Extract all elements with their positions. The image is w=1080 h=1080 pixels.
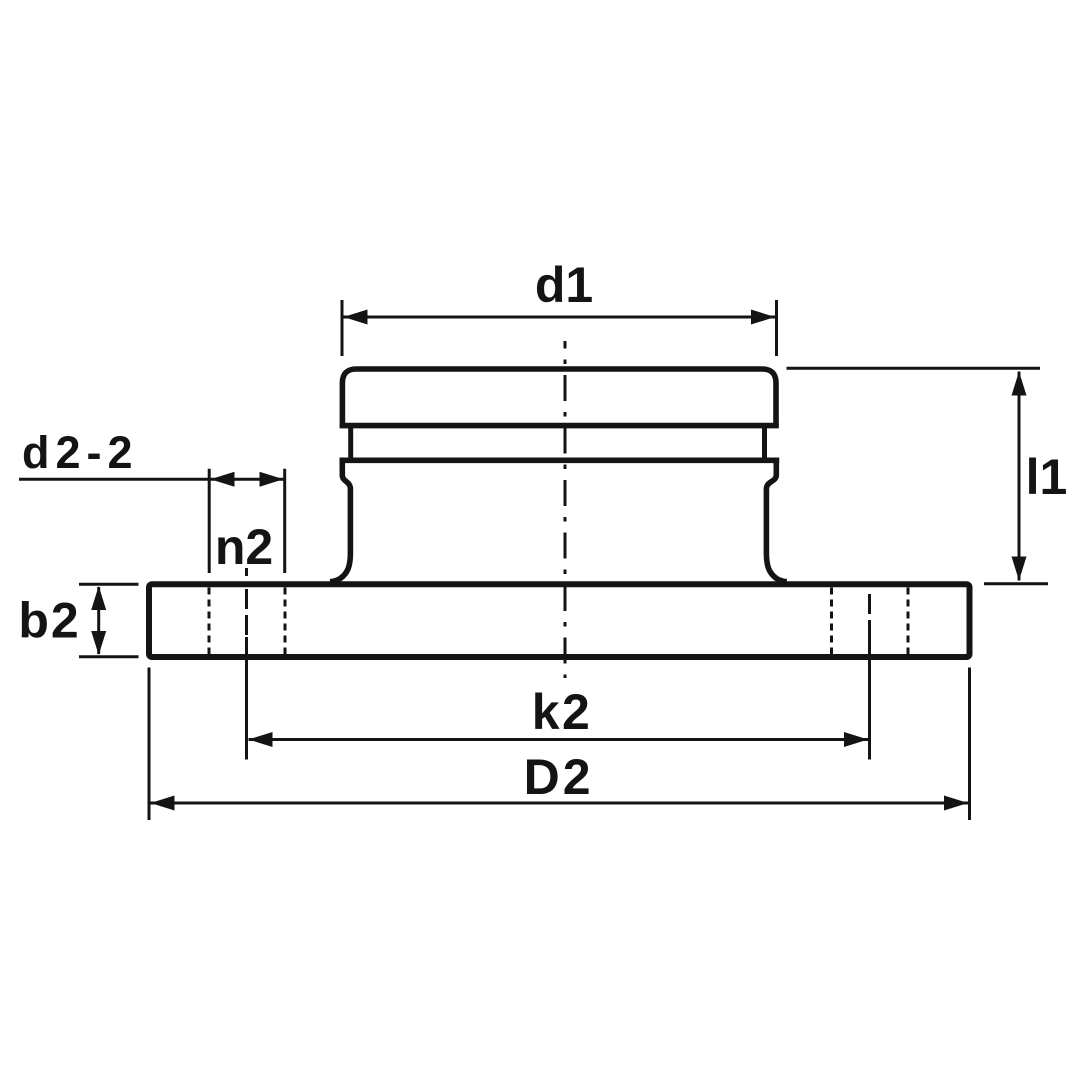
dimension l1 bottom tick: [984, 582, 1048, 585]
hub neck left profile: [330, 458, 350, 582]
hub collar top edge: [340, 457, 780, 463]
left bolt hole edge (dashed, x=209): [208, 588, 211, 655]
dimension k2 right arrowhead: [844, 732, 868, 747]
dimension b2 line: [97, 587, 100, 654]
dimension l1 line: [1018, 372, 1021, 581]
dimension d1 right arrowhead: [751, 310, 775, 325]
dimension D2 line: [151, 802, 969, 805]
left bolt centerline / k2 extension line: [245, 637, 248, 760]
dimension b2 bottom arrowhead: [91, 631, 106, 655]
svg-text:D2: D2: [524, 749, 594, 805]
dimension l1 top arrowhead: [1012, 372, 1027, 396]
svg-text:n2: n2: [215, 519, 273, 575]
dimension l1 top tick: [787, 367, 1041, 370]
right bolt hole edge (dashed, x=831.5): [830, 588, 833, 655]
hub neck right profile: [766, 458, 786, 582]
hub band left edge: [348, 426, 353, 461]
vertical centerline (dash-dot): [564, 341, 567, 678]
hub band right edge: [762, 426, 767, 461]
dimension d2-2 right extension line: [283, 469, 286, 573]
dimension d1 left arrowhead: [344, 310, 368, 325]
dimension d2-2 left arrowhead: [211, 472, 235, 487]
svg-text:d1: d1: [535, 257, 593, 313]
dimension d2-2 line: [19, 478, 285, 481]
flange plate outline: [149, 584, 970, 657]
dimension D2 left extension line: [148, 668, 151, 821]
dimension b2 bottom tick: [79, 655, 139, 658]
dimension b2 top tick: [79, 583, 139, 586]
svg-text:d2-2: d2-2: [22, 427, 139, 478]
dimension D2 right arrowhead: [944, 796, 968, 811]
svg-text:k2: k2: [532, 684, 593, 740]
dimension d1 left extension line: [341, 300, 344, 356]
dimension b2 top arrowhead: [91, 586, 106, 610]
svg-text:b2: b2: [18, 593, 80, 649]
dimension d1 line: [344, 316, 776, 319]
dimension d2-2 right arrowhead: [260, 472, 284, 487]
hub cap (pipe stub top): [342, 369, 776, 426]
svg-text:l1: l1: [1026, 449, 1068, 505]
hub cap bottom edge: [340, 423, 779, 429]
left bolt hole edge (dashed, x=285): [284, 588, 287, 655]
dimension l1 bottom arrowhead: [1012, 557, 1027, 581]
right bolt centerline inside plate (long dashes): [868, 594, 871, 637]
left bolt centerline inside plate (long dashes): [245, 589, 248, 637]
dimension k2 left arrowhead: [249, 732, 273, 747]
dimension d2-2 left extension line: [208, 469, 211, 573]
right bolt hole edge (dashed, x=908): [907, 588, 910, 655]
dimension D2 left arrowhead: [151, 796, 175, 811]
left bolt centerline dash above plate: [245, 568, 248, 576]
dimension k2 line: [249, 738, 869, 741]
dimension D2 right extension line: [968, 668, 971, 821]
right bolt centerline / k2 extension line: [868, 637, 871, 760]
dimension d1 right extension line: [775, 300, 778, 356]
